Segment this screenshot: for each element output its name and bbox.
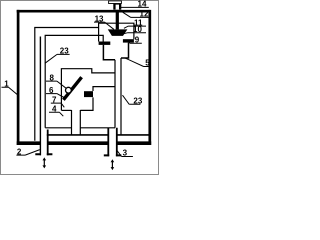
right tab 9 bbox=[123, 39, 134, 42]
inner wall 23 left inner bbox=[45, 35, 103, 127]
vessel lower walls bbox=[103, 43, 128, 60]
lever 6 bbox=[63, 77, 81, 100]
housing 1 : left edge bbox=[17, 10, 20, 145]
drain duct walls under tilt box bbox=[72, 110, 81, 135]
inner wall bottom bbox=[45, 127, 71, 129]
stop tab in tilt box bbox=[84, 91, 93, 97]
pivot 8 bbox=[66, 87, 72, 93]
bottom channel floor bbox=[47, 134, 149, 136]
bottom channel top wall bbox=[80, 127, 115, 129]
left pipe flange feet bbox=[35, 153, 52, 155]
funnel 10 bbox=[108, 29, 128, 36]
dip tube wall / left outlet pipe 2 left wall bbox=[39, 37, 41, 156]
valve block white slot bbox=[116, 5, 119, 10]
image frame bbox=[1, 1, 159, 175]
vessel 9/10/11 top bbox=[99, 23, 134, 41]
arrow under pipe 3 bbox=[111, 162, 113, 168]
arrow under pipe 2 bbox=[43, 160, 45, 168]
valve block 12 bbox=[113, 3, 121, 10]
left tab bbox=[99, 42, 111, 45]
funnel stem 11 bbox=[116, 9, 119, 29]
top plate 14 bbox=[109, 1, 122, 4]
down tube 5/23 right wall bbox=[120, 58, 122, 135]
housing 1 : bottom edge with pipe gaps bbox=[17, 141, 152, 145]
housing 1 : outer thick casing top edge bbox=[17, 10, 150, 13]
housing 1 : right edge bbox=[148, 10, 151, 145]
right pipe flange feet bbox=[104, 154, 122, 156]
tilt box 4 outline bbox=[61, 69, 115, 111]
down tube 5/23 left wall bbox=[114, 60, 116, 128]
inner wall 23 left outer bbox=[35, 28, 99, 141]
right outlet pipe 3 bbox=[108, 128, 117, 157]
left outlet pipe 2 right wall bbox=[47, 130, 49, 156]
